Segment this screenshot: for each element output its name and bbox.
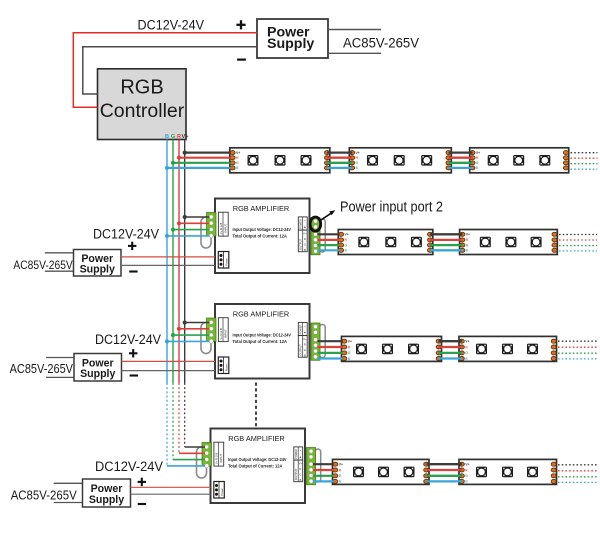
svg-text:INPUT: INPUT xyxy=(224,329,228,338)
strip solder pads xyxy=(459,462,556,483)
LED chip xyxy=(476,344,487,355)
svg-text:G: G xyxy=(348,351,351,355)
label AC85V-265V (row 3) xyxy=(10,362,74,376)
AC input lines PS2 xyxy=(45,253,74,271)
wire red branch to amplifier A3 xyxy=(179,452,205,454)
label POWER +/- xyxy=(298,217,307,230)
wire black branch to amplifier A1 xyxy=(185,216,210,218)
controller pin labels B G R V+ xyxy=(165,134,189,140)
svg-text:AC85V-265V: AC85V-265V xyxy=(343,35,419,51)
wire bundle continuation (dotted) xyxy=(558,341,597,359)
strip pad labels V+ R G B xyxy=(465,463,469,484)
wire GND PS2 to A1 xyxy=(121,264,215,266)
power connector A1 xyxy=(218,252,229,269)
RGB amplifier A1 box xyxy=(215,199,310,274)
svg-text:G: G xyxy=(339,474,342,478)
LED strip segment xyxy=(459,336,557,361)
arrow to power input port 2 xyxy=(320,210,336,221)
wire bundle strip1-strip2 xyxy=(327,153,352,168)
wire black branch to amplifier A2 xyxy=(185,322,210,324)
svg-text:V+ R G B: V+ R G B xyxy=(219,222,223,234)
svg-text:Power: Power xyxy=(220,488,224,496)
output connector tab xyxy=(320,219,326,252)
strip pad labels V+ R G B xyxy=(345,233,349,253)
wire green vertical bus (dashed) xyxy=(172,383,174,460)
label DC12V-24V (row 2) xyxy=(93,227,159,243)
strip pad labels V+ R G B xyxy=(339,463,343,484)
svg-text:OUTPUT: OUTPUT xyxy=(299,344,303,356)
wire green vertical bus (solid) xyxy=(172,140,174,384)
svg-text:+: + xyxy=(304,225,306,229)
minus terminal PS4 xyxy=(138,503,146,505)
svg-text:R: R xyxy=(299,467,301,471)
strip pad labels V+ R G B xyxy=(466,233,470,253)
amplifier A3 title xyxy=(228,434,285,443)
wire blue vertical bus (dashed) xyxy=(166,383,168,466)
svg-text:Power: Power xyxy=(225,258,229,266)
svg-text:Input Output Voltage: DC12-24V: Input Output Voltage: DC12-24V xyxy=(228,457,287,462)
input connector (green) A2 xyxy=(207,318,217,343)
dashed chain link A2-A3 xyxy=(255,383,257,429)
svg-text:Input Output Voltage: DC12-24V: Input Output Voltage: DC12-24V xyxy=(233,333,292,338)
LED chip xyxy=(476,467,487,478)
svg-text:G: G xyxy=(465,351,468,355)
amplifier A3 spec text xyxy=(228,457,287,468)
RGB amplifier A3 box xyxy=(211,429,306,504)
controller text RGB xyxy=(120,77,163,99)
amplifier A1 title xyxy=(233,204,290,213)
svg-text:Power input port 2: Power input port 2 xyxy=(340,199,443,216)
label OUTPUT / V+ R G B xyxy=(298,230,307,252)
svg-text:R: R xyxy=(177,134,181,140)
wire bundle row3 xyxy=(439,341,463,358)
output wires A3 to strip xyxy=(313,464,334,481)
power supply PS3 xyxy=(74,354,122,382)
LED strip segment xyxy=(230,148,330,173)
output wires A2 to strip xyxy=(318,341,343,358)
svg-text:DC12V-24V: DC12V-24V xyxy=(93,227,159,243)
LED chip xyxy=(480,237,491,248)
svg-text:V+: V+ xyxy=(299,462,303,466)
svg-text:RGB AMPLIFIER: RGB AMPLIFIER xyxy=(228,434,285,443)
LED chip xyxy=(527,344,538,355)
svg-text:POWER: POWER xyxy=(299,219,303,229)
wire green branch to amplifier A2 xyxy=(173,334,210,336)
LED chip xyxy=(248,155,259,166)
wire +12V PS4 to A3 xyxy=(131,486,211,488)
strip pad labels V+ R G B xyxy=(356,151,360,170)
power supply PS1 xyxy=(257,19,328,58)
wire black branch to amplifier A3 xyxy=(185,446,205,448)
wire blue branch to amplifier A3 xyxy=(167,465,205,467)
svg-text:Supply: Supply xyxy=(80,264,115,276)
svg-text:RGB: RGB xyxy=(120,77,163,99)
svg-text:DC12V-24V: DC12V-24V xyxy=(95,459,163,475)
svg-text:Input Output Voltage: DC12-24V: Input Output Voltage: DC12-24V xyxy=(233,227,292,232)
output connector (green) A1 xyxy=(311,218,320,255)
wire bundle strip2-strip3 xyxy=(449,153,473,168)
label OUTPUT / V+ R G B xyxy=(298,336,307,358)
LED chip xyxy=(411,237,422,248)
svg-text:V+: V+ xyxy=(465,463,469,467)
label DC12V-24V (row 3) xyxy=(95,332,161,348)
svg-text:Supply: Supply xyxy=(80,368,115,380)
wire GND black PS1 to controller xyxy=(83,47,257,94)
svg-text:AC85V-265V: AC85V-265V xyxy=(10,362,74,376)
wire bundle row4 xyxy=(427,464,463,481)
wire black vertical bus (solid) xyxy=(184,140,186,384)
svg-text:V+: V+ xyxy=(236,151,240,155)
LED chip xyxy=(353,467,364,478)
LED chip xyxy=(385,237,396,248)
svg-text:G: G xyxy=(466,243,469,247)
minus terminal PS2 xyxy=(129,270,137,272)
LED chip xyxy=(502,344,513,355)
output connector tab xyxy=(315,449,321,482)
strip pad labels V+ R G B xyxy=(236,151,240,170)
power connector A2 xyxy=(218,357,229,374)
LED strip segment xyxy=(338,230,433,255)
wire bundle continuation (dotted) xyxy=(559,235,597,251)
svg-text:R: R xyxy=(304,343,306,347)
wire GND PS4 to A3 xyxy=(131,493,211,495)
svg-text:-: - xyxy=(300,448,301,452)
svg-text:V+: V+ xyxy=(182,134,190,140)
wire GND PS3 to A2 xyxy=(122,370,216,372)
svg-text:-: - xyxy=(304,324,305,328)
svg-text:V+: V+ xyxy=(339,463,343,467)
wire red branch to amplifier A1 xyxy=(179,222,210,224)
svg-text:POWER: POWER xyxy=(294,449,298,459)
power supply PS2 xyxy=(74,250,122,277)
svg-text:RGB AMPLIFIER: RGB AMPLIFIER xyxy=(233,204,290,213)
LED chip xyxy=(382,344,393,355)
svg-text:Supply: Supply xyxy=(89,494,124,506)
LED strip segment xyxy=(459,459,557,484)
svg-text:-: - xyxy=(304,218,305,222)
svg-text:RGB AMPLIFIER: RGB AMPLIFIER xyxy=(233,309,290,318)
wire bundle continuation (dotted) xyxy=(558,465,597,483)
annotation Power input port 2 xyxy=(340,199,443,216)
power supply PS4 xyxy=(83,479,131,507)
svg-text:B: B xyxy=(304,353,306,357)
label POWER +/- xyxy=(294,447,303,460)
input cable loop xyxy=(201,323,211,354)
input connector (green) A3 xyxy=(202,443,212,468)
LED chip xyxy=(421,155,432,166)
label AC85V-265V (row 2) xyxy=(13,258,73,272)
strip solder pads xyxy=(460,232,557,252)
svg-text:INPUT: INPUT xyxy=(219,453,223,462)
svg-text:V+: V+ xyxy=(348,340,352,344)
label OUTPUT / V+ R G B xyxy=(294,460,303,482)
LED chip xyxy=(539,155,550,166)
svg-text:V+: V+ xyxy=(303,337,307,341)
wire red vertical bus (dashed) xyxy=(178,383,180,453)
minus terminal PS3 xyxy=(130,374,138,376)
controller text Controller xyxy=(100,100,185,122)
svg-text:Total Output of Current: 12A: Total Output of Current: 12A xyxy=(233,233,288,238)
output connector tab xyxy=(320,325,326,358)
wire +12V PS2 to A1 xyxy=(121,256,215,258)
svg-text:POWER: POWER xyxy=(299,324,303,334)
plus terminal PS1 xyxy=(236,20,245,29)
input cable loop xyxy=(197,447,207,478)
RGB amplifier A2 box xyxy=(215,304,310,379)
label AC85V-265V (top) xyxy=(343,35,419,51)
wire V+ red PS1 to controller xyxy=(73,33,257,108)
wire bundle row2 xyxy=(430,234,463,250)
svg-text:V+ R G B: V+ R G B xyxy=(215,452,219,464)
svg-text:G: G xyxy=(304,348,306,352)
minus terminal PS1 xyxy=(237,58,246,60)
input cable loop xyxy=(201,217,211,248)
output wires A1 to strip xyxy=(318,234,340,250)
label DC12V-24V (row 4) xyxy=(95,459,163,475)
AC input lines PS3 xyxy=(46,358,74,378)
plus terminal PS3 xyxy=(129,349,137,357)
wire black vertical bus (dashed) xyxy=(184,383,186,447)
LED chip xyxy=(394,155,405,166)
svg-text:V+: V+ xyxy=(476,151,480,155)
LED chip xyxy=(513,155,524,166)
input label INPUT / V+ R G B xyxy=(214,442,224,466)
input label INPUT / V+ R G B xyxy=(218,212,228,236)
plus terminal PS2 xyxy=(128,242,136,250)
LED strip segment xyxy=(342,336,442,361)
LED chip xyxy=(488,155,499,166)
svg-text:G: G xyxy=(356,161,359,165)
LED chip xyxy=(301,155,312,166)
svg-text:Controller: Controller xyxy=(100,100,185,122)
svg-text:AC85V-265V: AC85V-265V xyxy=(13,258,73,272)
svg-text:+: + xyxy=(299,455,301,459)
LED strip segment xyxy=(333,459,430,484)
output connector (green) A3 xyxy=(307,448,316,485)
strip solder pads xyxy=(333,462,429,483)
svg-text:V+ R G B: V+ R G B xyxy=(219,328,223,340)
output connector (green) A2 xyxy=(311,323,320,360)
power input port 2 highlight ring xyxy=(310,217,321,231)
AC input lines PS1 xyxy=(328,30,381,54)
svg-text:G: G xyxy=(171,134,175,140)
strip solder pads xyxy=(230,151,329,170)
strip solder pads xyxy=(339,232,433,252)
power connector A3 xyxy=(214,482,225,499)
svg-text:R: R xyxy=(304,237,306,241)
svg-text:B: B xyxy=(304,248,306,252)
svg-text:+: + xyxy=(304,331,306,335)
LED chip xyxy=(404,467,415,478)
svg-text:G: G xyxy=(465,474,468,478)
svg-text:B: B xyxy=(299,478,301,482)
label DC12V-24V (top) xyxy=(138,18,205,34)
svg-text:OUTPUT: OUTPUT xyxy=(299,238,303,250)
wire blue branch to amplifier A2 xyxy=(167,340,210,342)
wire +12V PS3 to A2 xyxy=(122,360,216,362)
LED chip xyxy=(378,467,389,478)
LED strip segment xyxy=(349,148,451,173)
svg-text:DC12V-24V: DC12V-24V xyxy=(95,332,161,348)
wire green branch to strip row 1 xyxy=(173,162,231,164)
strip solder pads xyxy=(459,339,556,360)
LED chip xyxy=(358,237,369,248)
wire green branch to amplifier A1 xyxy=(173,229,210,231)
wire red branch to amplifier A2 xyxy=(179,328,210,330)
svg-text:V+: V+ xyxy=(303,232,307,236)
strip pad labels V+ R G B xyxy=(348,340,352,361)
wire black branch to strip row 1 xyxy=(185,152,231,154)
svg-text:G: G xyxy=(304,243,306,247)
wire bundle continuation (dotted) xyxy=(571,153,598,170)
amplifier A2 title xyxy=(233,309,290,318)
LED chip xyxy=(502,467,513,478)
svg-text:G: G xyxy=(345,243,348,247)
LED chip xyxy=(367,155,378,166)
wire red vertical bus (solid) xyxy=(178,140,180,384)
svg-text:OUTPUT: OUTPUT xyxy=(294,468,298,480)
LED chip xyxy=(531,237,542,248)
svg-text:Total Output of Current: 12A: Total Output of Current: 12A xyxy=(233,339,288,344)
strip solder pads xyxy=(350,151,451,170)
strip pad labels V+ R G B xyxy=(465,340,469,361)
wire red branch to strip row 1 xyxy=(179,157,231,159)
wire blue branch to strip row 1 xyxy=(167,167,231,169)
LED chip xyxy=(275,155,286,166)
svg-text:Power: Power xyxy=(225,363,229,371)
wire green branch to amplifier A3 xyxy=(173,459,205,461)
amplifier A1 spec text xyxy=(233,227,292,238)
LED chip xyxy=(356,344,367,355)
svg-text:Total Output of Current: 12A: Total Output of Current: 12A xyxy=(228,463,283,468)
svg-text:Supply: Supply xyxy=(267,36,314,52)
svg-text:V+: V+ xyxy=(465,340,469,344)
strip solder pads xyxy=(470,151,568,170)
LED strip segment xyxy=(460,230,558,255)
LED chip xyxy=(527,467,538,478)
RGB controller U1 xyxy=(98,69,187,140)
svg-text:G: G xyxy=(299,473,301,477)
label AC85V-265V (row 4) xyxy=(11,487,77,502)
strip solder pads xyxy=(342,339,441,360)
LED chip xyxy=(408,344,419,355)
LED chip xyxy=(505,237,516,248)
AC input lines PS4 xyxy=(54,483,83,502)
svg-text:V+: V+ xyxy=(356,151,360,155)
amplifier A2 spec text xyxy=(233,333,292,344)
svg-text:AC85V-265V: AC85V-265V xyxy=(11,487,77,502)
wire blue branch to amplifier A1 xyxy=(167,235,210,237)
svg-text:V+: V+ xyxy=(345,233,349,237)
wire blue vertical bus (solid) xyxy=(166,140,168,384)
plus terminal PS4 xyxy=(138,478,146,486)
svg-text:INPUT: INPUT xyxy=(224,223,228,232)
junction dots xyxy=(165,151,187,344)
input connector (green) A1 xyxy=(207,213,217,238)
svg-text:B: B xyxy=(165,134,169,140)
LED strip segment xyxy=(470,148,569,173)
svg-text:G: G xyxy=(236,161,239,165)
svg-text:V+: V+ xyxy=(466,233,470,237)
input label INPUT / V+ R G B xyxy=(218,318,228,342)
strip pad labels V+ R G B xyxy=(476,151,480,170)
label POWER +/- xyxy=(298,322,307,335)
svg-text:DC12V-24V: DC12V-24V xyxy=(138,18,205,34)
svg-text:G: G xyxy=(476,161,479,165)
